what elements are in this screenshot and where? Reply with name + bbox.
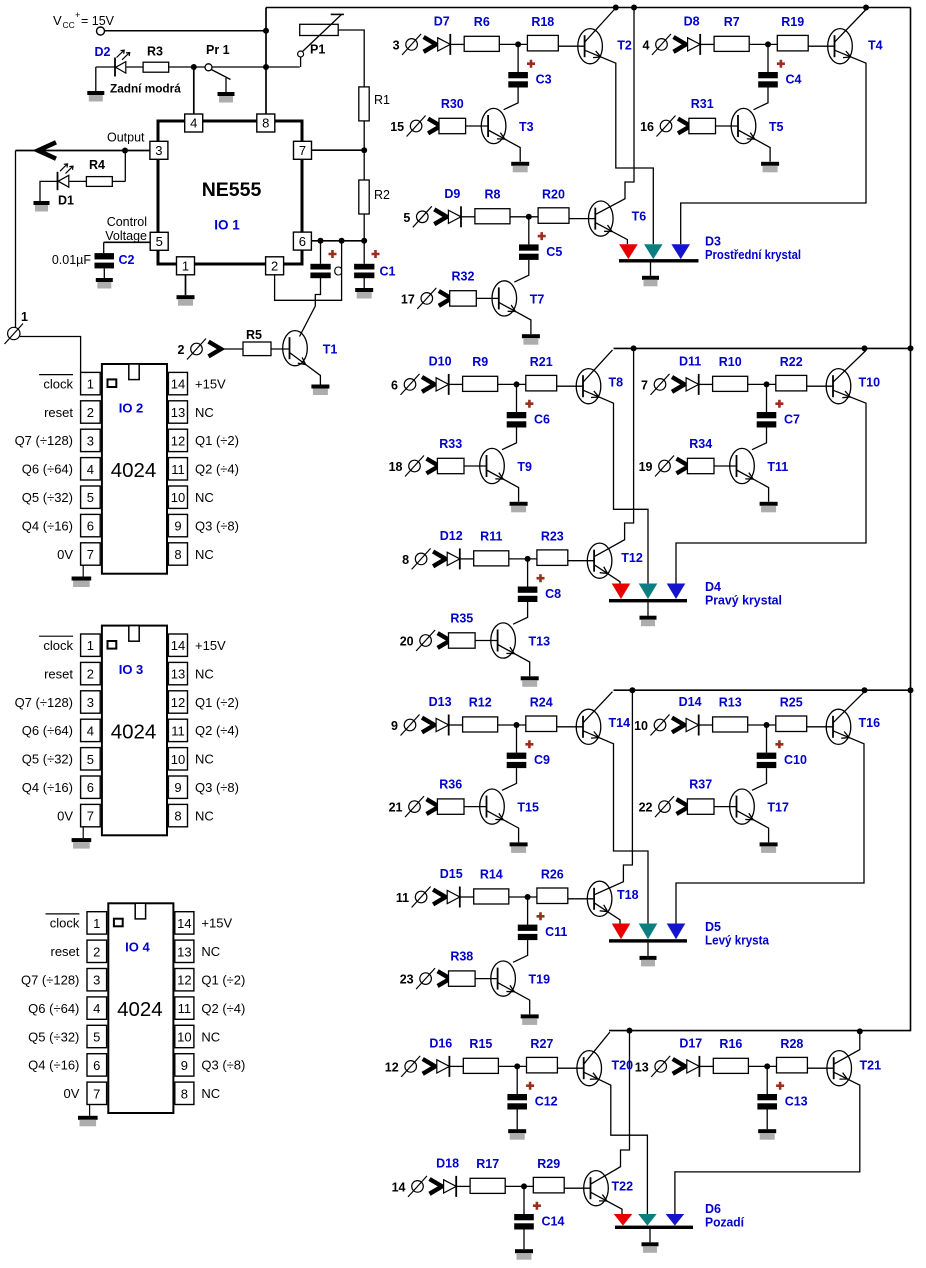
label R36 — [439, 778, 462, 792]
resistor R31 — [689, 118, 716, 133]
label D1 — [58, 194, 74, 208]
resistor R2 — [359, 180, 369, 214]
label R9 — [472, 355, 488, 369]
transistor T8 — [576, 369, 601, 404]
resistor R18 — [527, 35, 558, 51]
label C2 — [119, 253, 135, 267]
LED D6 red — [614, 1214, 633, 1226]
wire R2 to pin6 node — [363, 214, 365, 241]
resistor R12 — [463, 717, 498, 732]
wire supply rail row 3 — [614, 689, 911, 691]
svg-text:T13: T13 — [529, 634, 551, 648]
svg-text:Q4 (÷16): Q4 (÷16) — [28, 1058, 79, 1073]
wire R38 to T19 base — [475, 978, 498, 980]
svg-text:NC: NC — [195, 752, 214, 767]
terminal 18 — [389, 456, 439, 477]
svg-text:1: 1 — [93, 916, 100, 931]
wire T20 collector — [584, 1032, 610, 1064]
svg-text:NC: NC — [195, 405, 214, 420]
wire R6 to node — [499, 43, 527, 45]
svg-text:14: 14 — [177, 916, 191, 931]
wire pin4 riser — [193, 67, 195, 114]
svg-text:2: 2 — [87, 667, 94, 682]
wire P1 to R1 — [338, 30, 364, 87]
label C10 — [784, 753, 807, 767]
LED D3 red — [619, 244, 638, 259]
transistor T22 — [584, 1171, 609, 1206]
svg-text:T8: T8 — [609, 376, 624, 390]
diode D11 — [686, 374, 699, 395]
svg-text:R19: R19 — [781, 15, 804, 29]
wire T20 emitter — [584, 1072, 648, 1214]
label T20 — [612, 1059, 634, 1073]
svg-text:11: 11 — [171, 723, 185, 738]
svg-text:R30: R30 — [441, 97, 464, 111]
terminal 1 — [5, 310, 29, 344]
terminal 3 — [393, 34, 436, 55]
svg-text:C3: C3 — [536, 73, 552, 87]
svg-text:T6: T6 — [632, 210, 647, 224]
svg-text:0V: 0V — [57, 547, 73, 562]
svg-text:D18: D18 — [436, 1156, 459, 1170]
svg-text:T18: T18 — [617, 888, 639, 902]
svg-text:D8: D8 — [684, 14, 700, 28]
wire bus to T22 collector — [591, 1031, 630, 1185]
svg-text:NE555: NE555 — [202, 179, 262, 201]
label R3 — [147, 45, 163, 59]
label T8 — [609, 376, 624, 390]
junction rail 2 bus — [631, 345, 637, 351]
svg-text:7: 7 — [299, 143, 306, 158]
wire T13 emitter — [498, 645, 530, 677]
wire C5 to T7 collector — [514, 260, 529, 282]
svg-text:R5: R5 — [246, 328, 262, 342]
wire D4 bar — [609, 599, 687, 602]
svg-text:Q5 (÷32): Q5 (÷32) — [22, 752, 73, 767]
svg-text:C9: C9 — [534, 753, 550, 767]
label R16 — [719, 1037, 742, 1051]
wire node to C4 — [767, 44, 769, 72]
svg-text:T20: T20 — [612, 1059, 634, 1073]
svg-text:C11: C11 — [545, 925, 567, 939]
label T10 — [859, 376, 881, 390]
wire pin5 to C2 — [104, 242, 151, 253]
svg-text:R35: R35 — [450, 612, 473, 626]
svg-text:Control: Control — [107, 215, 147, 229]
svg-text:R28: R28 — [780, 1037, 803, 1051]
transistor T6 — [589, 201, 614, 236]
label R22 — [780, 355, 803, 369]
diode D10 — [436, 374, 449, 395]
capacitor C8 — [518, 587, 538, 603]
pin 1 — [177, 257, 195, 275]
svg-text:D11: D11 — [679, 354, 701, 368]
svg-text:R18: R18 — [531, 15, 554, 29]
diode D9 — [448, 206, 461, 227]
label C11 — [545, 925, 567, 939]
svg-text:Pr 1: Pr 1 — [206, 43, 230, 57]
ground T13 — [521, 676, 539, 687]
svg-text:C1: C1 — [380, 265, 396, 279]
wire D13 to R12 — [449, 724, 463, 726]
wire R12 to node — [498, 724, 526, 726]
label plus C8 — [537, 574, 545, 582]
svg-text:D9: D9 — [444, 187, 460, 201]
wire C2 to ground — [103, 268, 105, 278]
wire R20 to T6 base — [569, 218, 595, 220]
resistor R10 — [713, 376, 748, 391]
terminal 17 — [401, 288, 451, 309]
svg-text:16: 16 — [640, 120, 654, 134]
transistor T11 — [730, 448, 755, 483]
node VCC terminal — [97, 27, 105, 35]
junction rail 1 right — [863, 5, 869, 11]
svg-text:D6: D6 — [705, 1202, 721, 1216]
wire D5 to ground — [647, 943, 649, 956]
wire R33 to T9 base — [464, 465, 487, 467]
transistor T2 — [578, 29, 603, 64]
svg-text:4024: 4024 — [111, 459, 157, 482]
junction rail 3 bus-right — [908, 687, 914, 693]
switch Pr1 — [205, 64, 231, 92]
wire D1 to R4 — [70, 180, 87, 182]
wire R9 to node — [498, 383, 526, 385]
transistor T3 — [481, 108, 506, 143]
wire node to C11 — [527, 897, 529, 925]
resistor R29 — [533, 1177, 564, 1193]
wire R28 to T21 base — [807, 1067, 833, 1069]
ground C1 — [355, 288, 373, 299]
junction R3 Pr1 — [191, 64, 197, 70]
counter IO 4 4024 — [21, 903, 245, 1126]
wire D1 to ground — [40, 181, 58, 201]
label T4 — [868, 39, 883, 53]
label plus C10 — [775, 740, 783, 748]
svg-text:4: 4 — [87, 462, 94, 477]
terminal 4 — [643, 34, 686, 55]
label R32 — [452, 269, 475, 283]
svg-text:R9: R9 — [472, 355, 488, 369]
label Zadni modra — [110, 82, 181, 96]
label T21 — [860, 1059, 882, 1073]
resistor R11 — [474, 551, 509, 566]
svg-text:Q3 (÷8): Q3 (÷8) — [195, 518, 239, 533]
svg-text:T11: T11 — [767, 460, 788, 474]
label R25 — [780, 696, 803, 710]
svg-text:R20: R20 — [542, 187, 565, 201]
wire R23 to T12 base — [568, 560, 594, 562]
svg-text:reset: reset — [50, 944, 79, 959]
wire T18 emitter — [594, 903, 620, 924]
wire right bus — [910, 8, 912, 1032]
LED D5 red — [612, 924, 631, 940]
svg-text:clock: clock — [50, 916, 80, 931]
svg-text:D5: D5 — [705, 920, 721, 934]
wire C13 to ground — [766, 1110, 768, 1130]
wire D6 bar — [615, 1226, 693, 1229]
svg-text:R23: R23 — [541, 529, 564, 543]
label D6 name — [705, 1216, 744, 1230]
pin 8 — [257, 114, 275, 132]
svg-text:Levý krysta: Levý krysta — [705, 934, 770, 948]
wire C8 to T13 collector — [513, 602, 528, 624]
resistor R35 — [449, 633, 476, 648]
label D4 — [705, 580, 721, 594]
wire R10 to node — [748, 383, 776, 385]
svg-text:T21: T21 — [860, 1059, 882, 1073]
label C9 — [534, 753, 550, 767]
svg-text:0.01µF: 0.01µF — [52, 253, 92, 267]
wire D12 to R11 — [460, 558, 474, 560]
wire C9 to T15 collector — [502, 768, 517, 790]
wire C7 to T11 collector — [752, 428, 767, 450]
transistor T9 — [480, 448, 505, 483]
label T11 — [767, 460, 788, 474]
pin 6 — [293, 232, 311, 250]
transistor T18 — [587, 881, 612, 916]
svg-text:R13: R13 — [719, 696, 742, 710]
label R31 — [691, 97, 714, 111]
svg-text:7: 7 — [641, 378, 648, 392]
svg-text:22: 22 — [639, 801, 653, 815]
svg-text:+15V: +15V — [195, 376, 226, 391]
label T1 — [323, 343, 338, 357]
junction pin8 riser — [263, 64, 269, 70]
terminal 10 — [634, 715, 684, 736]
wire R11 to node — [509, 558, 537, 560]
svg-text:D1: D1 — [58, 194, 74, 208]
wire node to C8 — [527, 559, 529, 587]
label D18 — [436, 1156, 459, 1170]
wire R34 to T11 base — [714, 465, 737, 467]
svg-text:5: 5 — [93, 1030, 100, 1045]
svg-text:8: 8 — [174, 809, 181, 824]
svg-text:R12: R12 — [469, 696, 492, 710]
svg-text:R25: R25 — [780, 696, 803, 710]
ground C12 — [508, 1129, 526, 1140]
svg-text:8: 8 — [262, 116, 269, 131]
svg-text:NC: NC — [201, 1086, 220, 1101]
svg-text:12: 12 — [177, 973, 191, 988]
wire T16 emitter — [676, 731, 864, 924]
capacitor C6 — [507, 412, 527, 428]
wire C4 to T5 collector — [754, 88, 769, 110]
svg-text:5: 5 — [403, 211, 410, 225]
wire D8 to R7 — [700, 43, 714, 45]
label NE555 — [202, 179, 262, 201]
wire R24 to T14 base — [557, 726, 583, 728]
wire T3 emitter — [488, 130, 520, 162]
label IO 1 — [214, 218, 240, 233]
svg-text:IO 4: IO 4 — [125, 940, 150, 955]
capacitor C7 — [757, 412, 777, 428]
label D10 — [429, 354, 452, 368]
label C7 — [784, 413, 800, 427]
svg-text:4: 4 — [190, 116, 197, 131]
svg-text:R7: R7 — [724, 15, 740, 29]
resistor R3 — [143, 62, 169, 72]
wire C to T1 collector — [300, 277, 321, 336]
wire R19 to T4 base — [808, 45, 834, 47]
wire output — [16, 150, 151, 152]
label D14 — [679, 695, 702, 709]
junction output — [122, 148, 128, 154]
svg-text:3: 3 — [393, 38, 400, 52]
svg-text:4: 4 — [93, 1001, 100, 1016]
label P1 — [310, 43, 325, 57]
resistor R16 — [713, 1058, 748, 1073]
svg-text:Q7 (÷128): Q7 (÷128) — [15, 433, 73, 448]
diode D8 — [688, 34, 701, 55]
wire R29 to T22 base — [564, 1187, 590, 1189]
label plus C9 — [525, 740, 533, 748]
svg-text:+: + — [75, 10, 80, 20]
wire R21 to T8 base — [557, 385, 583, 387]
svg-text:1: 1 — [87, 638, 94, 653]
svg-text:C4: C4 — [786, 73, 802, 87]
label D2 — [95, 45, 111, 59]
svg-text:Output: Output — [107, 131, 145, 145]
LED D1 — [58, 164, 74, 190]
svg-text:1: 1 — [182, 259, 189, 274]
terminal 12 — [385, 1056, 435, 1077]
wire term2 to R5 — [221, 348, 243, 350]
transistor T21 — [827, 1051, 852, 1086]
op-amp U1 NE555 body — [158, 121, 302, 264]
junction node C8 — [525, 556, 531, 562]
resistor R17 — [470, 1178, 505, 1193]
wire supply rail row 2 — [614, 347, 911, 349]
label D17 — [679, 1036, 702, 1050]
svg-text:4: 4 — [87, 723, 94, 738]
svg-text:R17: R17 — [476, 1157, 499, 1171]
svg-text:Q2 (÷4): Q2 (÷4) — [201, 1001, 245, 1016]
label T18 — [617, 888, 639, 902]
wire pin7 — [311, 149, 364, 151]
wire C11 to T19 collector — [513, 940, 528, 962]
terminal 21 — [389, 796, 439, 817]
svg-text:Q1 (÷2): Q1 (÷2) — [195, 433, 239, 448]
label T5 — [769, 120, 784, 134]
pin 2 — [266, 257, 284, 275]
wire node to R2 — [363, 150, 365, 180]
transistor T4 — [828, 29, 853, 64]
diode D15 — [447, 887, 460, 908]
svg-text:7: 7 — [87, 809, 94, 824]
label T15 — [517, 801, 539, 815]
svg-text:9: 9 — [391, 719, 398, 733]
svg-text:T2: T2 — [617, 39, 632, 53]
svg-text:6: 6 — [87, 780, 94, 795]
resistor R34 — [687, 458, 714, 473]
svg-text:3: 3 — [87, 433, 94, 448]
wire T11 emitter — [737, 470, 769, 502]
svg-text:13: 13 — [635, 1060, 649, 1074]
svg-text:C13: C13 — [785, 1095, 808, 1109]
svg-text:R38: R38 — [450, 950, 473, 964]
wire T19 emitter — [498, 983, 530, 1015]
wire R18 to T2 base — [558, 45, 584, 47]
transistor T16 — [826, 709, 851, 744]
svg-text:R15: R15 — [469, 1037, 492, 1051]
wire T10 emitter — [676, 390, 866, 583]
svg-text:Q3 (÷8): Q3 (÷8) — [201, 1058, 245, 1073]
wire T8 emitter — [583, 390, 648, 583]
svg-text:12: 12 — [171, 695, 185, 710]
svg-text:T9: T9 — [517, 460, 532, 474]
junction rail 3 bus — [629, 687, 635, 693]
svg-text:Q5 (÷32): Q5 (÷32) — [22, 490, 73, 505]
wire T8 collector — [583, 350, 613, 382]
capacitor C10 — [757, 753, 777, 769]
wire D5 bar — [609, 939, 687, 942]
label C12 — [535, 1095, 558, 1109]
wire C14 to ground — [523, 1230, 525, 1250]
svg-text:Q4 (÷16): Q4 (÷16) — [22, 780, 73, 795]
label T9 — [517, 460, 532, 474]
svg-text:NC: NC — [201, 944, 220, 959]
label R29 — [537, 1157, 560, 1171]
LED D6 blue — [666, 1214, 685, 1226]
label plus C14 — [533, 1202, 541, 1210]
svg-text:8: 8 — [174, 547, 181, 562]
label R38 — [450, 950, 473, 964]
LED D4 green — [639, 584, 658, 600]
svg-text:11: 11 — [178, 1001, 192, 1016]
svg-text:C5: C5 — [546, 245, 562, 259]
ground T1 — [311, 385, 329, 396]
label R23 — [541, 529, 564, 543]
svg-text:5: 5 — [87, 752, 94, 767]
svg-text:R1: R1 — [374, 93, 390, 107]
junction rail 1 bus — [631, 5, 637, 11]
label plus C6 — [525, 400, 533, 408]
label D9 — [444, 187, 460, 201]
pin 7 — [294, 141, 312, 159]
wire T7 emitter — [499, 302, 531, 334]
svg-text:CC: CC — [63, 20, 75, 30]
LED D5 green — [639, 924, 658, 940]
label T16 — [859, 716, 881, 730]
svg-text:= 15V: = 15V — [81, 14, 115, 28]
svg-text:NC: NC — [195, 547, 214, 562]
transistor T7 — [492, 281, 517, 316]
label D5 name — [705, 934, 770, 948]
junction rail 4 bus — [627, 1028, 633, 1034]
junction C — [318, 238, 324, 244]
label T12 — [621, 551, 643, 565]
resistor R26 — [537, 888, 568, 904]
label R33 — [439, 437, 462, 451]
wire R1 to pin7 node — [363, 121, 365, 150]
label R20 — [542, 187, 565, 201]
terminal 11 — [396, 887, 446, 908]
terminal 16 — [640, 116, 690, 137]
LED D4 red — [612, 584, 631, 600]
transistor T19 — [491, 961, 516, 996]
transistor T5 — [731, 108, 756, 143]
svg-text:13: 13 — [171, 667, 185, 682]
svg-text:R36: R36 — [439, 778, 462, 792]
wire D18 to R17 — [456, 1185, 470, 1187]
wire bus to T6 collector — [595, 8, 634, 215]
svg-text:reset: reset — [44, 405, 73, 420]
label Output — [107, 131, 145, 145]
junction node C6 — [514, 381, 520, 387]
wire pin2 node — [275, 241, 342, 300]
svg-text:12: 12 — [171, 433, 185, 448]
wire output drop to R4 — [124, 151, 126, 182]
